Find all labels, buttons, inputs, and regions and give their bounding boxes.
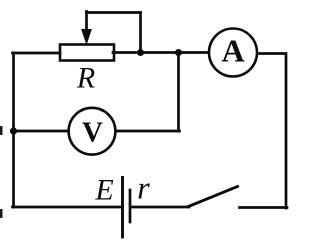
wire: wiper loop top horizontal: [87, 11, 141, 14]
ammeter A circle: [209, 29, 257, 77]
wire: battery to switch pivot: [131, 206, 189, 209]
svg-text:A: A: [221, 33, 244, 69]
wire: bottom-right horizontal to switch fixed contact: [240, 206, 288, 209]
scan artifact mark lower-left edge: [0, 209, 3, 218]
svg-text:V: V: [82, 117, 103, 149]
switch S blade (open): [189, 187, 238, 207]
battery plate: long (E): [121, 178, 124, 238]
wire: top-left horizontal to rheostat: [13, 52, 61, 55]
rheostat R body: [60, 45, 114, 61]
node: junction dot at voltmeter branch top: [175, 49, 182, 56]
scan artifact mark upper-left edge: [0, 126, 3, 135]
battery plate: short (r side): [129, 190, 132, 222]
wiper arrowhead: [82, 30, 91, 44]
voltmeter V circle: [69, 108, 116, 155]
wire: wiper vertical stem: [85, 12, 88, 32]
svg-text:R: R: [76, 62, 95, 95]
wire: wiper loop right vertical down to node: [139, 13, 142, 53]
wire: voltmeter right horizontal: [116, 130, 180, 133]
wire: top horizontal rail from rheostat to ammeter: [113, 51, 210, 54]
wire: voltmeter left horizontal to rail: [13, 130, 69, 133]
wire: left vertical rail: [12, 53, 15, 207]
wire: voltmeter branch vertical: [177, 53, 180, 132]
wire: bottom-left horizontal from rail to battery: [13, 206, 122, 209]
wire: ammeter right to top-right corner and right rail: [258, 54, 287, 209]
node: junction dot on left rail: [10, 127, 17, 134]
svg-text:r: r: [137, 170, 150, 206]
node: junction dot at wiper tap: [137, 49, 144, 56]
svg-text:E: E: [94, 174, 113, 207]
